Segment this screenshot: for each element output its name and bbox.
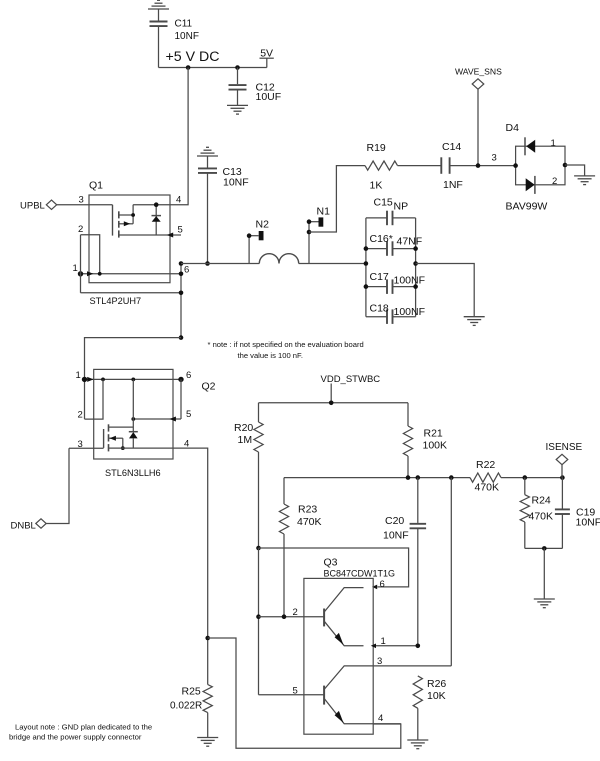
transistor Q2 package box [94,369,173,459]
Q1 pin 4 label [176,195,181,206]
capacitor C20 [383,478,426,646]
svg-text:C18: C18 [370,303,389,315]
svg-text:C20: C20 [385,515,404,527]
Q1 bottom outer wire [81,292,182,294]
Q3 pin 6 label [380,579,385,590]
Q1 MOSFET body tap with arrow [119,221,133,226]
diode D4 package box [516,146,565,185]
svg-text:VDD_STWBC: VDD_STWBC [321,374,381,385]
wire UPBL to Q1 gate pin 3 [57,204,113,206]
Q2 pin 6 label [186,370,191,381]
layout note [9,723,152,742]
capacitor C19 [555,478,600,549]
Q2 pin 5 label [186,409,191,420]
Q2 MOSFET gate bar [103,429,105,448]
svg-text:1: 1 [73,263,78,274]
Q3 upper emitter [325,622,364,646]
label D4 pin 1 [551,138,556,149]
node junction Q1 pin 1 [78,271,83,276]
svg-text:0.022R: 0.022R [170,701,202,712]
Q3 pin 5 wire [259,694,325,696]
port 5V [260,48,274,68]
node junction Q2 pin 6 [178,377,183,382]
cap bank left bus [365,218,367,317]
resistor R26 [413,676,446,740]
svg-text:1M: 1M [238,434,253,446]
svg-text:6: 6 [380,579,385,590]
svg-text:WAVE_SNS: WAVE_SNS [455,67,502,77]
node junction pin3 riser top [449,475,454,480]
port DNBL [11,519,47,532]
node junction R25 top [205,636,210,641]
svg-text:6: 6 [186,370,191,381]
wire pin 3 riser [450,478,452,666]
node junction R23 bottom [282,614,287,619]
Q3 pin 2 wire [259,616,325,618]
wire coil to cap bank [299,263,366,265]
svg-text:Layout note : GND plan dedica: Layout note : GND plan dedicated to the [15,723,152,732]
svg-text:C15: C15 [374,197,393,209]
svg-text:STL4P2UH7: STL4P2UH7 [90,296,142,306]
svg-text:10NF: 10NF [383,530,409,542]
Q3 pin 5 label [293,686,298,697]
svg-text:2: 2 [78,410,83,421]
svg-text:2: 2 [552,176,557,187]
wire VDD stub [330,384,332,403]
Q1 drain row / pin 5 wire [119,233,181,238]
svg-text:2: 2 [293,607,298,618]
wire cap bank to ground [416,264,475,317]
svg-text:Q1: Q1 [89,180,103,192]
node junctions cap bank [364,246,418,289]
Q2 pin 3 wire (gate) [69,447,104,449]
svg-text:BC847CDW1T1G: BC847CDW1T1G [324,569,396,579]
Q1 pin 1 row wire [81,271,182,276]
svg-text:470K: 470K [475,482,500,494]
port UPBL [20,200,57,211]
transistor Q1 package box [89,195,170,283]
Q3 pin 1 label [381,636,386,647]
Q1 pin 1 label [73,263,78,274]
Q2 part number [105,468,161,478]
Q3 pin 2 label [293,607,298,618]
port WAVE_SNS [455,67,502,90]
wire bar to ground [543,548,545,599]
svg-text:5: 5 [293,686,298,697]
Q1 MOSFET source riser [132,205,134,224]
wire Q2 pin5 riser [180,379,182,419]
transistor Q3 package box [304,578,373,734]
wire R20 node to Q3 pin 6 [259,548,409,589]
Q1 part number [90,296,142,306]
svg-text:10UF: 10UF [256,91,282,103]
svg-text:10NF: 10NF [175,31,199,42]
svg-text:R25: R25 [182,686,201,698]
Q2 pin 2 label [78,410,83,421]
label +5 V DC [166,49,220,65]
wire D4 to ground [565,165,585,176]
node junction Q2 pin2 riser top [101,378,105,382]
Q2 drain riser and body diode [129,379,138,448]
wire link to Q2 [85,338,182,420]
svg-text:10NF: 10NF [576,517,600,529]
ground below C12 [227,105,248,114]
node junction on +5V rail at x=237 [235,65,240,70]
label pin 3 of Q1 [79,195,84,206]
Q1 body diode [152,205,162,235]
svg-text:10NF: 10NF [223,177,249,189]
svg-text:N2: N2 [256,219,270,231]
node junction on +5V rail at x=188 [186,65,191,70]
svg-text:C17: C17 [370,271,389,283]
note text [208,340,364,360]
node junction WAVE_SNS/wire [476,163,481,168]
node junction base bus / pin2 [256,614,261,619]
capacitor C13 [198,156,249,264]
node junction Q1 pin2 riser [98,272,102,276]
svg-text:bridge and the power supply co: bridge and the power supply connector [9,733,142,742]
svg-text:3: 3 [492,153,497,164]
node junction D4 right [563,163,568,168]
wire R24/C19 bottom bar [525,547,563,549]
ground below R26 [407,740,428,749]
Q2 MOSFET body tap with arrow [109,436,123,448]
Q1 MOSFET gate bar [112,205,114,236]
transistor Q1 designator [89,180,103,192]
svg-text:R24: R24 [532,495,551,507]
node junction R21 bottom [406,475,411,480]
net tie N1 [307,206,330,264]
wire base bus [258,548,260,695]
node junction Q2 body/source [121,446,125,450]
node junction D4 left [513,163,518,168]
inductor coil [259,254,298,264]
Q2 MOSFET drain tap [109,426,134,428]
svg-text:Q2: Q2 [202,381,216,393]
ground (inverted) above C13 [197,147,218,156]
wire R25 node to Q3 pin 4 [208,638,401,748]
svg-text:C14: C14 [442,141,461,153]
svg-text:6: 6 [184,265,189,276]
Q3 part number [324,569,396,579]
svg-text:47NF: 47NF [397,236,423,248]
port ISENSE [546,442,583,478]
svg-text:R22: R22 [476,459,495,471]
capacitor C14 [441,141,463,191]
svg-text:5V: 5V [260,48,273,60]
svg-text:+5 V DC: +5 V DC [166,49,220,65]
svg-text:UPBL: UPBL [20,201,45,212]
label D4 pin 2 [552,176,557,187]
ground right of cap bank [464,317,485,326]
wire VDD rail [259,402,409,404]
svg-text:* note : if not specified on t: * note : if not specified on the evaluat… [208,340,364,349]
capacitor C17 [366,271,425,294]
wire N1 to R19 [309,166,365,232]
Q1 pin 2 label [78,224,83,235]
transistor Q2 designator [202,381,216,393]
cap bank right bus [415,218,417,317]
resistor R21 [403,403,447,478]
Q1 pin 6 label [184,265,189,276]
svg-text:100NF: 100NF [394,275,426,287]
node junction C20 top [416,475,421,480]
wire DNBL to Q2 pin 3 [46,448,69,523]
Q1 MOSFET source tap [119,214,133,216]
wire R19 to C14 [398,165,442,167]
capacitor C15 [366,197,416,226]
svg-text:1: 1 [551,138,556,149]
svg-text:1K: 1K [370,180,383,192]
resistor R22 [470,459,501,494]
port VDD_STWBC [321,374,381,385]
svg-text:5: 5 [178,225,183,236]
node junction C13/main wire [205,261,210,266]
Q3 lower transistor base bar [323,686,325,705]
ground below R24/C19 [534,599,555,608]
node junction Q2 pin 1 [82,377,87,382]
svg-text:R26: R26 [427,678,446,690]
svg-text:D4: D4 [506,122,520,134]
svg-text:C16*: C16* [370,233,393,245]
node junction sw/main [179,261,184,266]
resistor R24 [520,478,553,549]
diode D4 top element (pin 1) [525,137,535,155]
diode D4 designator [506,122,520,134]
wire switch node vertical [180,264,182,338]
wire +5V rail [159,67,267,69]
node junction pin1/C20/R26 [416,644,421,649]
node junction sw/link [179,335,184,340]
capacitor C16 [366,233,422,256]
svg-text:the value is 100 nF.: the value is 100 nF. [238,351,303,360]
svg-text:5: 5 [186,409,191,420]
svg-text:470K: 470K [529,511,554,523]
svg-text:3: 3 [377,656,382,667]
D4 part number [506,201,548,213]
Q1 pin 5 label [178,225,183,236]
Q3 pin 1 wire [371,644,418,649]
svg-text:ISENSE: ISENSE [546,442,583,453]
svg-text:R21: R21 [424,428,443,440]
svg-text:1: 1 [76,370,81,381]
node junction Q2 drain riser top [131,378,135,382]
Q2 MOSFET source row [109,447,174,449]
node junction Q2 pin5/drain riser [131,417,135,421]
node junction R20 bottom [256,546,261,551]
node junction Q1 source riser [131,213,135,217]
capacitor C11 [150,9,199,68]
svg-text:100K: 100K [423,440,448,452]
ground below R25 [197,738,218,747]
Q1 left outer wire [80,235,82,293]
label D4 pin 3 [492,153,497,164]
node junction Q1 pin4 row / diode [154,202,159,207]
svg-text:Q3: Q3 [324,557,338,569]
Q2 pin 1 row wire [85,377,182,382]
wire switch node [181,263,259,265]
svg-text:BAV99W: BAV99W [506,201,548,213]
transistor Q3 designator [324,557,338,569]
Q1 MOSFET channel (dashed) [118,211,120,237]
wire divider row [284,477,562,479]
Q2 pin 2 wire [85,379,104,419]
capacitor C18 [366,303,425,324]
Q2 pin 4 label [184,439,189,450]
wire WAVE_SNS stub [477,89,479,165]
svg-text:470K: 470K [297,516,322,528]
Q2 MOSFET channel (dashed) [108,424,110,451]
Q2 pin 3 label [78,439,83,450]
Q2 pin 5 wire [133,417,181,422]
svg-text:N1: N1 [317,206,331,218]
Q3 pin 4 label [378,713,383,724]
svg-text:3: 3 [79,195,84,206]
wire C14 to D4 pin 3 [450,165,516,167]
resistor R25 [170,685,212,738]
ground (inverted) above C11 [148,0,169,9]
resistor R20 [234,403,263,548]
Q3 upper collector [325,588,364,612]
net tie N2 [247,219,269,264]
Q1 pin 2 wire [81,235,100,274]
svg-text:R23: R23 [298,504,317,516]
svg-text:10K: 10K [427,690,446,702]
Q3 pin 3 label [377,656,382,667]
svg-text:4: 4 [176,195,181,206]
Q3 upper transistor base bar [323,609,325,627]
ground at D4 [574,176,595,185]
svg-text:4: 4 [378,713,383,724]
Q3 lower emitter [325,699,401,724]
svg-text:C11: C11 [175,19,193,30]
svg-text:STL6N3LLH6: STL6N3LLH6 [105,468,161,478]
node junction R24 top [523,475,528,480]
Q2 pin 1 label [76,370,81,381]
svg-text:R19: R19 [367,142,386,154]
resistor R23 [279,478,321,617]
Q3 lower collector [325,666,452,689]
resistor R19 [365,142,398,192]
svg-text:R20: R20 [234,422,253,434]
svg-text:DNBL: DNBL [11,521,36,532]
node junction ISENSE corner [560,475,565,480]
svg-text:100NF: 100NF [394,306,426,318]
svg-text:NP: NP [394,201,409,213]
svg-text:1NF: 1NF [443,179,463,191]
wire Q2 pin 4 to R25 [173,448,208,684]
wire +5V to Q1 pin 4 [133,68,188,205]
svg-text:3: 3 [78,439,83,450]
capacitor C12 [229,68,282,106]
node junction VDD stub [329,401,334,406]
diode D4 bottom element (pin 2) [526,176,535,194]
svg-text:1: 1 [381,636,386,647]
svg-text:2: 2 [78,224,83,235]
node junction sw/pin6 [179,272,184,277]
node junction sw/bottom [179,291,184,296]
node junction bottom bar [542,546,547,551]
